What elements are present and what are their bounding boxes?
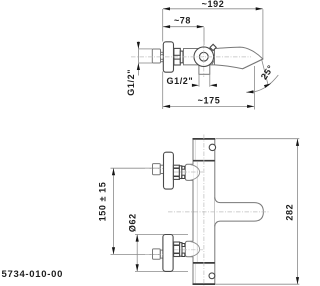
center line upper inlet axis [174, 171, 203, 173]
svg-text:~175: ~175 [198, 96, 221, 106]
column body [193, 139, 215, 284]
dimension ~78 [163, 26, 204, 28]
svg-text:Ø62: Ø62 [127, 213, 137, 232]
knob inner circle [199, 52, 208, 61]
screw bottom [209, 273, 215, 279]
arc arrow left [246, 90, 253, 93]
upper inlet square [153, 164, 161, 175]
dimension 282 [297, 139, 299, 284]
outlet dim arrows [192, 84, 199, 87]
escutcheon (side view) [163, 42, 173, 72]
dimension ~192 [163, 8, 263, 10]
extension diam62 top [135, 234, 188, 236]
svg-text:G1/2": G1/2" [126, 69, 136, 96]
column inner highlight top cap [194, 140, 196, 160]
extension 150 bottom [111, 253, 161, 255]
column top edge (dark) [193, 138, 216, 140]
dimension ~175 [163, 105, 254, 107]
lower escutcheon [163, 235, 173, 272]
center line lower wall axis [145, 253, 163, 255]
extension line wall (left) [162, 9, 164, 42]
mixer body with spout (side view) [184, 47, 263, 69]
upper inlet neck [160, 165, 163, 173]
upper escutcheon [164, 152, 174, 189]
center line vertical through knob [203, 42, 205, 78]
extension 150 top [111, 167, 161, 169]
lower boss projection arc [190, 242, 199, 257]
center line spout horizontal [168, 211, 270, 213]
hex nut (side view) [174, 48, 180, 65]
lower washer [180, 243, 182, 257]
svg-text:282: 282 [284, 204, 294, 221]
spout (front view) [215, 197, 264, 226]
svg-text:~192: ~192 [202, 0, 225, 9]
extension line wall lower part [162, 72, 164, 110]
lower boss [185, 241, 193, 256]
knob tab (diamond) [210, 44, 216, 50]
extension line spout tip [262, 9, 264, 59]
column bottom cap line [193, 262, 215, 264]
svg-text:5734-010-00: 5734-010-00 [2, 269, 64, 280]
center line horizontal through body axis [131, 56, 251, 58]
center line column vertical [203, 135, 205, 286]
center line upper wall axis [145, 167, 163, 169]
dimension G1/2 outlet: extension lines [198, 75, 200, 87]
lower inlet square [153, 249, 161, 259]
dimension 150 +/- 15 [113, 168, 115, 254]
temperature knob outer circle [194, 47, 214, 67]
spout end cut face [243, 59, 263, 69]
column inner highlight main [196, 162, 198, 262]
upper washer [179, 166, 181, 179]
upper boss projection arc [190, 165, 199, 181]
upper nut [173, 165, 179, 179]
dimension G1/2 wall pipe (vertical) [137, 42, 139, 76]
angle 25 slant line from tip [262, 60, 269, 86]
upper boss [185, 164, 193, 180]
column top cap line [193, 160, 215, 162]
ridge washer (side view) [180, 51, 183, 63]
extension diam62 bottom [135, 270, 188, 272]
screw top [209, 144, 215, 150]
wall pipe square [152, 49, 160, 63]
svg-text:G1/2": G1/2" [167, 76, 194, 86]
lower inlet neck [160, 250, 163, 258]
body end cap line [214, 49, 216, 65]
arc arrow on slant [264, 83, 271, 88]
upper nubs [182, 166, 185, 169]
column bottom edge (dark) [193, 283, 216, 285]
svg-text:~78: ~78 [174, 16, 191, 26]
lower nubs [182, 244, 185, 247]
lower nut [174, 242, 180, 257]
knob notch [212, 61, 214, 65]
extension line knob center [203, 27, 205, 45]
svg-text:150 ± 15: 150 ± 15 [98, 182, 108, 222]
extension 282 bottom [216, 283, 299, 285]
column inner highlight bottom cap [194, 264, 196, 284]
extension 282 top [216, 138, 299, 140]
shower outlet below body [199, 65, 210, 75]
center line lower inlet axis [174, 249, 203, 251]
dimension diam 62 [136, 235, 138, 272]
extension line spout lower [253, 66, 255, 110]
pipe neck ridges [161, 52, 164, 54]
angle 25 arc [246, 75, 278, 92]
